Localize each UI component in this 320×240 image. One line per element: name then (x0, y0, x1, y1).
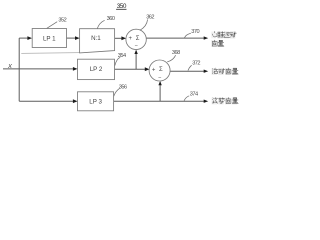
svg-text:−: − (158, 75, 161, 81)
leader 356 (114, 88, 120, 96)
wire summer 368 output (170, 70, 204, 72)
arrowhead into summer 362 left (121, 36, 126, 40)
wire LP1 to N:1 (67, 37, 79, 39)
svg-text:368: 368 (172, 50, 180, 56)
svg-text:360: 360 (107, 16, 115, 22)
svg-text:+: + (129, 36, 133, 42)
svg-text:356: 356 (119, 84, 127, 90)
svg-text:352: 352 (58, 17, 66, 23)
text cardiac motion vector line2 (211, 40, 224, 47)
svg-text:+: + (152, 68, 156, 74)
arrowhead into N:1 (75, 36, 80, 40)
svg-text:362: 362 (146, 14, 154, 20)
wire vertical branch (18, 38, 20, 101)
svg-text:−: − (135, 43, 138, 49)
svg-text:LP 2: LP 2 (90, 66, 103, 73)
svg-text:354: 354 (118, 53, 126, 59)
title underline 350 (116, 8, 126, 10)
arrowhead into LP3 (73, 99, 78, 103)
arrowhead output 374 (204, 100, 209, 103)
leader 374 (184, 96, 189, 101)
svg-text:Σ: Σ (136, 36, 140, 42)
summer circle 362 (126, 29, 146, 49)
wire LP2 line up to summer 362 minus input (135, 51, 137, 70)
scan crease line (21, 52, 79, 55)
leader 370 (184, 33, 191, 38)
wire summer 362 output (146, 37, 204, 39)
svg-text:LP 1: LP 1 (43, 35, 56, 42)
wire LP3 line up to summer 368 minus input (159, 82, 161, 101)
wire X input horizontal (3, 68, 76, 70)
arrowhead output 370 (204, 36, 209, 39)
block LP1 352 (32, 29, 66, 48)
wire branch to LP1 (19, 37, 30, 39)
text posture vector (212, 98, 239, 105)
leader 352 (47, 22, 57, 29)
block LP3 356 (78, 92, 114, 111)
text cardiac motion vector line1 (211, 31, 236, 38)
leader 372 (188, 65, 192, 70)
summer circle 368 (149, 60, 170, 81)
leader 362 (140, 19, 148, 30)
wire LP3 output (114, 100, 205, 102)
block LP2 354 (78, 59, 115, 79)
svg-text:Σ: Σ (159, 67, 163, 73)
wire LP2 to summer 368 (115, 68, 148, 70)
svg-text:350: 350 (117, 3, 127, 10)
leader 368 (167, 55, 175, 62)
block N:1 decimator 360 (80, 29, 115, 53)
leader 360 (97, 20, 104, 28)
arrowhead into summer 362 bottom (134, 50, 137, 54)
arrowhead output 372 (204, 70, 209, 73)
arrowhead into summer 368 bottom (158, 81, 161, 85)
svg-text:374: 374 (190, 91, 198, 97)
arrowhead into LP1 (27, 36, 32, 40)
arrowhead into summer 368 left (145, 67, 150, 71)
wire branch to LP3 (19, 100, 76, 102)
svg-text:LP 3: LP 3 (89, 99, 102, 106)
svg-text:372: 372 (192, 61, 200, 67)
arrowhead into LP2 (73, 67, 78, 71)
text activity vector (212, 68, 239, 75)
svg-text:N:1: N:1 (91, 35, 101, 42)
wire N:1 to summer 362 (115, 37, 125, 39)
leader 354 (115, 57, 120, 65)
svg-text:370: 370 (191, 29, 199, 35)
